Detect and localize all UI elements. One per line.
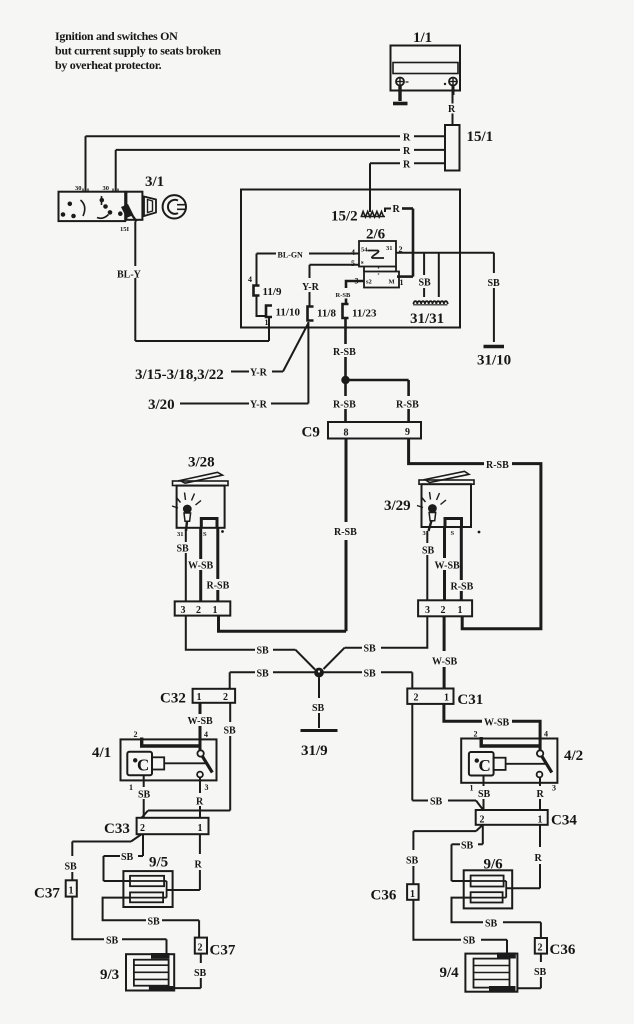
- svg-text:3/29: 3/29: [384, 498, 411, 514]
- svg-text:2: 2: [441, 605, 446, 616]
- wire R-SB 3/28 strip pin1 loop: [219, 616, 347, 632]
- svg-text:2: 2: [140, 823, 145, 834]
- ground 31/10: [484, 345, 505, 348]
- svg-text:by overheat protector.: by overheat protector.: [55, 58, 162, 72]
- svg-text:9/4: 9/4: [440, 965, 460, 981]
- svg-text:R-SB: R-SB: [207, 581, 230, 592]
- svg-text:W-SB: W-SB: [435, 561, 461, 572]
- svg-text:s2: s2: [366, 279, 372, 286]
- svg-text:S: S: [451, 530, 455, 537]
- svg-text:2: 2: [538, 943, 543, 954]
- junction node SB starburst: [315, 668, 324, 677]
- svg-text:4/2: 4/2: [564, 748, 583, 764]
- wire SB to 31/10: [493, 253, 495, 342]
- svg-text:8: 8: [344, 428, 349, 439]
- svg-text:R: R: [535, 853, 543, 864]
- 4/1 contact: [197, 772, 203, 778]
- svg-text:1: 1: [458, 605, 463, 616]
- wire SB 9/6 lower to C36-2: [452, 898, 541, 938]
- svg-text:15I: 15I: [120, 226, 130, 233]
- svg-text:SB: SB: [194, 968, 207, 979]
- svg-text:C36: C36: [371, 888, 397, 904]
- svg-text:W-SB: W-SB: [188, 716, 214, 727]
- svg-text:9/5: 9/5: [149, 855, 168, 871]
- junction node R-SB: [341, 376, 349, 384]
- svg-text:BL-Y: BL-Y: [117, 270, 142, 281]
- connector C32: [193, 689, 236, 703]
- wire Y-R relay pin5: [310, 265, 360, 306]
- svg-text:R: R: [537, 789, 545, 800]
- svg-text:SB: SB: [106, 935, 119, 946]
- wire SB C34 pin2 to 9/6 upper: [452, 825, 483, 881]
- 3/1 key ring: [163, 195, 186, 218]
- svg-text:W-SB: W-SB: [432, 657, 458, 668]
- battery 1/1: [391, 46, 461, 91]
- wire R-SB C9 pin9 loop right: [409, 439, 541, 629]
- svg-text:C32: C32: [160, 691, 186, 707]
- svg-text:C34: C34: [551, 813, 577, 829]
- connector C37-1: [66, 880, 77, 896]
- svg-text:R-SB: R-SB: [333, 400, 356, 411]
- wire SB C33 pin2 to C37-1: [72, 834, 141, 880]
- 3/29 lamp: [417, 492, 446, 531]
- wire R row2: [116, 150, 445, 192]
- wire SB C33 pin2 to 9/5 upper: [104, 834, 144, 881]
- wire SB C32 pin2 down: [229, 703, 231, 811]
- svg-text:but current supply to seats br: but current supply to seats broken: [55, 44, 221, 58]
- svg-text:3/15-3/18,3/22: 3/15-3/18,3/22: [135, 367, 224, 383]
- connector C31: [407, 689, 453, 704]
- wire R row1: [86, 136, 446, 192]
- svg-text:3: 3: [552, 784, 556, 793]
- wire W-SB C31 pin1 to 4/2 pin4: [444, 704, 540, 751]
- svg-text:SB: SB: [430, 797, 443, 808]
- svg-text:31/31: 31/31: [410, 311, 444, 327]
- svg-text:31/10: 31/10: [477, 353, 511, 369]
- svg-text:2: 2: [414, 693, 419, 704]
- wire R-SB junction branches to C9: [346, 380, 409, 422]
- svg-text:SB: SB: [257, 668, 270, 679]
- svg-text:C33: C33: [104, 821, 130, 837]
- svg-text:4: 4: [544, 730, 548, 739]
- svg-text:R: R: [403, 133, 411, 144]
- ground 31/31: [414, 301, 448, 304]
- svg-text:SB: SB: [224, 726, 237, 737]
- svg-text:4: 4: [204, 730, 208, 739]
- svg-text:3/28: 3/28: [188, 455, 215, 471]
- 3/28 pin labels: [177, 530, 224, 538]
- connector strip 3/29: [418, 600, 472, 616]
- svg-text:W-SB: W-SB: [484, 718, 510, 729]
- svg-text:2: 2: [198, 943, 203, 954]
- svg-text:2: 2: [134, 730, 138, 739]
- svg-text:11/9: 11/9: [263, 286, 282, 298]
- svg-text:15/1: 15/1: [467, 129, 494, 145]
- wire SB 3/29 strip pin3 to junction: [324, 616, 428, 669]
- wire R row3 to 15/2: [370, 163, 445, 212]
- wire W-SB C32 pin1 to 4/1 pin4: [199, 703, 202, 751]
- wire SB relay pin2 to grounds: [396, 253, 494, 297]
- svg-text:C: C: [479, 756, 491, 775]
- 3/1 internal contacts: [62, 196, 122, 218]
- 4/2 thermo sensor: [469, 752, 547, 776]
- connector C9: [328, 422, 421, 439]
- ground 31/9: [301, 729, 338, 732]
- svg-text:54: 54: [361, 247, 368, 254]
- svg-text:15/2: 15/2: [331, 209, 358, 225]
- wire R C33 pin1 to 9/5: [167, 834, 200, 890]
- svg-text:31/9: 31/9: [301, 743, 328, 759]
- connector 11/8: [308, 307, 314, 321]
- svg-text:1: 1: [265, 318, 269, 327]
- svg-text:SB: SB: [463, 936, 476, 947]
- 4/1 switch arm: [202, 756, 212, 773]
- relay 2/6 internals: [368, 251, 385, 275]
- connector C33: [137, 818, 209, 834]
- 3/28 lamp: [172, 493, 201, 532]
- wire R 4/1 pin3 to C33: [199, 777, 201, 817]
- 3/29 contact bracket: [445, 519, 462, 528]
- wire BL-Y: [135, 222, 269, 342]
- svg-text:C36: C36: [550, 942, 576, 958]
- wire SB junction right to C31: [324, 672, 413, 688]
- svg-text:C9: C9: [302, 425, 320, 441]
- svg-text:C31: C31: [457, 692, 483, 708]
- svg-text:R-SB: R-SB: [396, 400, 419, 411]
- wire SB 4/1 pin1 to C33: [143, 775, 145, 818]
- wire SB C31 pin2 to C34: [412, 704, 483, 810]
- 3/1 terminal marks 30: [75, 185, 109, 192]
- svg-text:SB: SB: [148, 916, 161, 927]
- wire BL-GN relay pin4: [257, 254, 360, 286]
- svg-text:S: S: [203, 531, 207, 538]
- ground bar battery: [393, 102, 408, 106]
- 3/1 key bezel: [144, 197, 156, 217]
- 4/2 switch pivot: [537, 750, 543, 756]
- svg-text:31: 31: [386, 245, 393, 252]
- wire R-SB relay pin3 to 11/23: [346, 281, 364, 304]
- relay box outline: [241, 190, 460, 328]
- svg-text:2: 2: [223, 692, 228, 703]
- svg-text:11/23: 11/23: [352, 308, 377, 320]
- svg-text:SB: SB: [422, 546, 435, 557]
- wire W-SB 3/29 strip pin2 to C31: [443, 616, 446, 688]
- svg-text:3: 3: [425, 605, 430, 616]
- svg-text:R: R: [196, 797, 204, 808]
- svg-text:1: 1: [410, 889, 415, 900]
- svg-text:1: 1: [69, 886, 74, 897]
- wire SB 3/28 strip pin3 to junction: [186, 616, 315, 670]
- wire SB 3/28 pin31: [185, 529, 187, 601]
- svg-text:1: 1: [213, 605, 218, 616]
- connector C36-1: [407, 884, 419, 900]
- 4/2 switch arm: [542, 756, 552, 773]
- svg-text:SB: SB: [534, 967, 547, 978]
- relay pin numbers: [351, 245, 404, 287]
- svg-text:3/1: 3/1: [145, 174, 164, 190]
- svg-text:SB: SB: [138, 790, 151, 801]
- caption text: [55, 29, 221, 72]
- svg-text:R: R: [403, 146, 411, 157]
- 4/1 thermo sensor: [127, 752, 207, 776]
- svg-text:Y-R: Y-R: [250, 368, 268, 379]
- 4/1 switch pivot: [197, 750, 203, 756]
- svg-text:Y-R: Y-R: [250, 400, 268, 411]
- svg-text:31: 31: [177, 531, 184, 538]
- svg-text:R: R: [448, 104, 456, 115]
- svg-text:R-SB: R-SB: [451, 582, 474, 593]
- wire SB C36-1 to 9/4: [413, 900, 507, 954]
- svg-text:SB: SB: [478, 789, 491, 800]
- svg-text:SB: SB: [177, 544, 190, 555]
- svg-text:9: 9: [405, 427, 410, 438]
- wire 11/9 to 11/10: [257, 296, 267, 317]
- svg-text:W-SB: W-SB: [188, 561, 214, 572]
- wire R-SB 11/23 down to junction: [344, 318, 347, 376]
- 3/1 actuator arrow 15I: [121, 204, 137, 222]
- battery terminal left: [396, 78, 409, 102]
- svg-text:2: 2: [196, 605, 201, 616]
- svg-text:4/1: 4/1: [92, 745, 111, 761]
- svg-text:30: 30: [103, 185, 110, 192]
- wire SB C32pin2 into C33 pin2: [142, 811, 231, 818]
- wire R 15/2 to relay pin1: [385, 208, 413, 277]
- battery terminal right: [444, 78, 457, 96]
- svg-text:SB: SB: [488, 278, 501, 289]
- wire SB C36-2 to 9/4: [517, 954, 541, 989]
- svg-text:3/20: 3/20: [148, 397, 175, 413]
- connector 11/23: [343, 304, 349, 318]
- connector C36-2: [535, 938, 547, 954]
- wire SB junction left to C32: [230, 672, 315, 689]
- wire SB 9/5 lower to C37-2: [103, 898, 200, 938]
- wire SB C34 pin2 to C36-1: [413, 825, 482, 884]
- svg-text:9/3: 9/3: [100, 967, 119, 983]
- svg-text:R-SB: R-SB: [336, 292, 351, 299]
- svg-text:1/1: 1/1: [413, 30, 432, 46]
- wire R C34 pin1 to 9/6: [506, 825, 540, 889]
- svg-text:R: R: [403, 160, 411, 171]
- wire R-SB 3/29 pin+: [460, 527, 463, 600]
- wire W-SB 3/29 pinS: [443, 527, 446, 600]
- wire R-SB 3/28 pin+: [216, 528, 219, 602]
- svg-text:1: 1: [198, 823, 203, 834]
- wire SB 4/2 pin1 to C34: [483, 776, 485, 811]
- svg-text:4: 4: [248, 275, 252, 284]
- svg-text:M: M: [389, 279, 395, 286]
- 3/28 contact bracket: [201, 519, 217, 528]
- svg-text:SB: SB: [406, 856, 419, 867]
- wire W-SB 3/28 pinS: [199, 528, 202, 602]
- svg-text:R: R: [195, 860, 203, 871]
- svg-text:2: 2: [480, 815, 485, 826]
- svg-text:C37: C37: [210, 943, 236, 959]
- svg-text:30: 30: [75, 185, 82, 192]
- wire SB C37-1 to 9/3: [72, 897, 166, 954]
- connector 11/10: [266, 306, 272, 318]
- svg-text:1: 1: [197, 692, 202, 703]
- svg-text:SB: SB: [419, 278, 432, 289]
- svg-text:SB: SB: [364, 668, 377, 679]
- svg-text:SB: SB: [121, 852, 134, 863]
- 4/2 contact: [537, 772, 543, 778]
- svg-text:3: 3: [205, 783, 209, 792]
- svg-text:2: 2: [474, 730, 478, 739]
- svg-text:1: 1: [444, 693, 449, 704]
- svg-text:R-SB: R-SB: [333, 347, 356, 358]
- svg-text:SB: SB: [364, 644, 377, 655]
- svg-text:Ignition and switches ON: Ignition and switches ON: [55, 29, 178, 43]
- svg-text:R: R: [393, 204, 401, 215]
- svg-text:C37: C37: [34, 886, 60, 902]
- svg-text:R-SB: R-SB: [334, 527, 357, 538]
- svg-text:SB: SB: [461, 840, 474, 851]
- svg-text:SB: SB: [312, 703, 325, 714]
- svg-text:C: C: [137, 756, 149, 775]
- svg-text:5: 5: [351, 259, 355, 268]
- fuse 15/1: [445, 125, 460, 171]
- svg-text:Y-R: Y-R: [302, 282, 320, 293]
- connector strip 3/28: [175, 601, 231, 615]
- svg-text:1: 1: [470, 784, 474, 793]
- wire R-SB C9 pin8 down: [345, 439, 348, 632]
- 3/29 pin labels: [423, 530, 481, 537]
- wire R 4/2 pin3 to C34: [539, 777, 541, 810]
- wire SB junction down to 31/9: [318, 677, 320, 728]
- svg-text:11/8: 11/8: [317, 308, 336, 320]
- svg-text:11/10: 11/10: [276, 307, 301, 319]
- svg-text:SB: SB: [485, 918, 498, 929]
- connector C34: [476, 810, 548, 825]
- svg-text:3: 3: [181, 605, 186, 616]
- svg-text:1: 1: [538, 815, 543, 826]
- svg-text:BL-GN: BL-GN: [278, 251, 304, 260]
- svg-text:SB: SB: [65, 862, 78, 873]
- svg-text:SB: SB: [257, 646, 270, 657]
- connector C37-2: [195, 938, 207, 954]
- svg-text:1: 1: [400, 278, 404, 287]
- svg-text:R-SB: R-SB: [486, 460, 509, 471]
- wire SB C37-2 to 9/3: [174, 954, 201, 989]
- wire R battery to 15/1: [452, 95, 454, 125]
- wire SB 3/29 pin31: [426, 531, 428, 600]
- svg-text:1: 1: [129, 783, 133, 792]
